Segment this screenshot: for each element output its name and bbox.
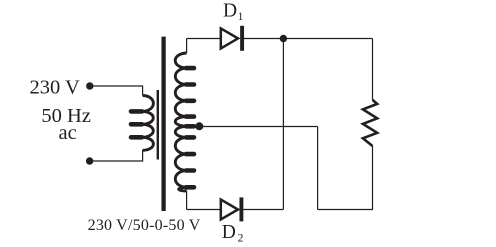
svg-text:230 V/50-0-50 V: 230 V/50-0-50 V (88, 217, 201, 234)
transformer primary winding (coil bumps) (142, 96, 154, 151)
wire: junction vertical down to D2 cathode rail (282, 39, 284, 210)
svg-text:2: 2 (238, 232, 244, 244)
transformer secondary winding (coil bumps, center-tapped) (175, 53, 187, 191)
svg-text:ac: ac (59, 122, 77, 144)
wire: secondary bottom lead down to bottom rail (186, 191, 188, 210)
node: output junction dot (280, 35, 287, 42)
wire: top rail from secondary to D1 anode (187, 38, 221, 40)
wire: right vertical down to load resistor (372, 39, 374, 100)
wire: center tap horizontal wire (199, 126, 317, 128)
wire: D2 cathode to junction vertical (243, 209, 283, 211)
transformer primary winding ear loops (131, 111, 142, 137)
wire: return path up to center tap level (317, 127, 319, 210)
wire: secondary bottom to D2 anode (187, 209, 221, 211)
transformer core: short bar (primary side) (157, 90, 159, 160)
wire: bottom terminal to primary winding (90, 150, 143, 161)
diode D2 triangle (221, 200, 238, 220)
diode D1 cathode bar (240, 26, 244, 51)
wire: D1 cathode to junction and to resistor top corner (244, 38, 373, 40)
svg-text:D: D (223, 0, 237, 21)
wire: secondary top lead up to rail (186, 39, 188, 54)
wire: top terminal to primary winding (90, 86, 143, 96)
transformer secondary winding ear loops (186, 68, 194, 187)
svg-text:1: 1 (238, 11, 244, 23)
svg-text:D: D (222, 222, 236, 243)
wire: resistor bottom down to bottom right corner (318, 146, 373, 210)
svg-text:230 V: 230 V (30, 77, 81, 99)
node: center tap dot (195, 122, 203, 130)
node: top input terminal dot (86, 82, 93, 89)
node: bottom input terminal dot (86, 157, 93, 164)
transformer core: long bar (secondary side) (161, 37, 165, 211)
diode D2 cathode bar (239, 197, 243, 221)
resistor R load (zigzag) (363, 100, 377, 146)
diode D1 triangle (221, 28, 238, 48)
